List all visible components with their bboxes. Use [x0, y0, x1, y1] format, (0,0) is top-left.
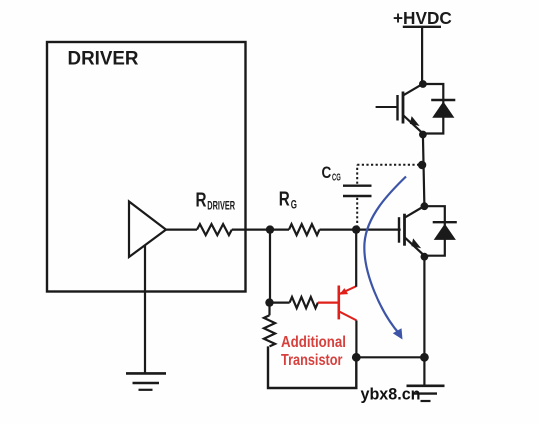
- svg-text:R: R: [279, 189, 290, 211]
- diode D1 triangle: [432, 102, 454, 118]
- T1 emitter diagonal: [404, 116, 422, 133]
- wire node C to emitter rail node D: [356, 356, 424, 358]
- T2 emitter node: [421, 253, 429, 261]
- node A junction: [266, 225, 274, 233]
- T2 collector diagonal: [405, 207, 424, 218]
- wire Q1 collector down to node C: [355, 320, 357, 357]
- gate node junction: [352, 225, 360, 233]
- T1 gate lead: [376, 106, 398, 108]
- svg-text:ybx8.cn: ybx8.cn: [361, 386, 421, 404]
- svg-text:C: C: [322, 163, 332, 182]
- T2 emitter diagonal: [405, 238, 423, 255]
- dotted wire CCG top up: [356, 165, 358, 184]
- blue feedback arrow curve: [364, 177, 406, 335]
- transistor Q1 collector diagonal: [340, 312, 357, 321]
- IGBT T2 (lower): [399, 202, 457, 260]
- diode D2 branch wires: [424, 206, 444, 256]
- wire upper emitter to lower collector: [423, 135, 425, 207]
- wire base resistor to Q1 base (red): [318, 302, 338, 304]
- resistor RG: [289, 224, 320, 235]
- svg-text:CG: CG: [332, 172, 341, 183]
- resistor emitter (vertical): [264, 315, 275, 346]
- T1 gate bar: [396, 95, 398, 121]
- T1 collector node: [419, 80, 427, 88]
- capacitor CCG bottom plate: [343, 195, 372, 197]
- blue arrowhead: [393, 328, 403, 339]
- T1 collector diagonal: [404, 84, 423, 95]
- T1 emitter node: [419, 131, 427, 139]
- resistor base (horizontal): [290, 297, 318, 308]
- transistor Q1 additional PNP base bar: [337, 286, 340, 320]
- ground right: [407, 386, 445, 401]
- capacitor CCG top plate: [343, 184, 372, 186]
- T1 body bar: [402, 92, 405, 124]
- wire node C down and left to vertical resistor: [268, 346, 356, 388]
- transistor Q1 emitter diagonal with arrow: [340, 286, 356, 294]
- node C junction: [352, 353, 361, 362]
- diode D1 branch wires: [423, 84, 443, 134]
- T2 gate bar: [398, 217, 400, 243]
- svg-text:R: R: [196, 190, 207, 212]
- buffer amplifier triangle: [129, 202, 166, 258]
- diode D2 cathode bar: [433, 221, 457, 223]
- ground left: [126, 373, 166, 389]
- resistor RDRIVER: [197, 224, 232, 235]
- T1 emitter arrow: [410, 116, 421, 126]
- T2 body bar: [403, 214, 406, 246]
- node B junction: [265, 298, 273, 306]
- T2 emitter arrow: [411, 238, 422, 248]
- node D junction: [420, 353, 429, 362]
- driver box U1: [47, 42, 246, 292]
- IGBT T1 (upper): [376, 80, 456, 138]
- svg-text:+HVDC: +HVDC: [393, 8, 452, 28]
- supply terminal bar: [403, 26, 441, 28]
- wire driver output: [166, 229, 197, 231]
- wire lower emitter down to node D: [423, 257, 425, 358]
- wire gate node to lower IGBT gate: [356, 229, 401, 231]
- diode D1 cathode bar: [431, 99, 455, 101]
- wire node A to RG: [270, 229, 289, 231]
- wire supply to upper collector: [421, 27, 423, 84]
- wire node A down: [269, 230, 271, 303]
- wire node D to ground: [423, 357, 425, 386]
- wire node B to base resistor: [270, 302, 290, 304]
- svg-text:G: G: [291, 199, 297, 211]
- wire RG to gate node: [320, 229, 357, 231]
- svg-text:DRIVER: DRIVER: [68, 47, 139, 69]
- svg-text:Transistor: Transistor: [281, 352, 343, 369]
- diode D2 triangle: [434, 224, 456, 240]
- wire gate node down to Q1 emitter: [355, 230, 357, 287]
- wire driver return down: [144, 246, 146, 373]
- svg-text:DRIVER: DRIVER: [207, 199, 235, 213]
- dotted wire CCG bottom down to gate node: [356, 198, 358, 227]
- wire node B down to vertical resistor: [268, 303, 270, 316]
- T2 collector node: [421, 202, 429, 210]
- wire RDRIVER to node A: [232, 229, 270, 231]
- node E junction on rail: [418, 161, 426, 169]
- svg-text:Additional: Additional: [281, 334, 346, 351]
- dotted wire to right rail: [357, 164, 419, 166]
